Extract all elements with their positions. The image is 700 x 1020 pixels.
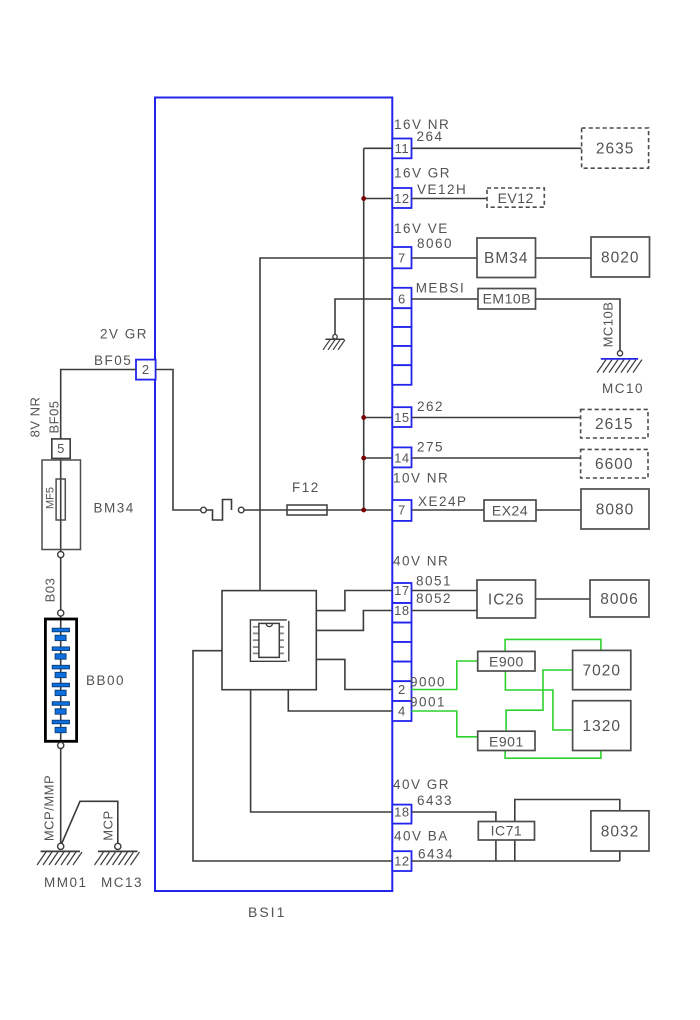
svg-text:262: 262 [417, 399, 444, 414]
svg-text:IC71: IC71 [491, 823, 523, 839]
component BM34 (right) [477, 238, 536, 278]
svg-text:40V BA: 40V BA [394, 829, 449, 844]
svg-text:8020: 8020 [601, 250, 639, 267]
svg-text:5: 5 [57, 441, 65, 456]
component 1320 [573, 701, 631, 751]
connector pin 12 [392, 188, 411, 208]
empty connector cell [392, 365, 411, 385]
ground MC10 hatch [597, 360, 642, 373]
svg-text:40V GR: 40V GR [393, 777, 450, 792]
svg-text:14: 14 [394, 451, 409, 466]
wire pin12 6434 to chip left [193, 651, 392, 861]
wire chip bottom to pin4 [288, 690, 392, 711]
component EV12 (dashed) [487, 188, 544, 207]
svg-text:8006: 8006 [600, 591, 638, 608]
svg-text:6434: 6434 [418, 847, 454, 862]
connector pin 18 (6433) [392, 805, 411, 824]
empty connector cell [392, 327, 411, 346]
wire pin7 to BM34 [412, 257, 478, 259]
battery BB00 plates [52, 628, 69, 733]
wire pin17 to IC26 [412, 590, 478, 592]
switch contact circle left [201, 507, 207, 513]
svg-text:2: 2 [398, 682, 406, 697]
svg-text:B03: B03 [43, 578, 58, 603]
internal ground circle [333, 335, 337, 339]
fuse BM34 element [56, 479, 65, 520]
wire IC71 to 8032 top loop [515, 800, 620, 862]
wire pin15 internal [364, 417, 393, 419]
svg-text:EV12: EV12 [498, 190, 534, 206]
svg-text:12: 12 [394, 854, 409, 869]
wire IC26 to 8006 [536, 598, 591, 600]
BSI1 control unit outline [155, 98, 392, 892]
svg-text:2: 2 [142, 362, 150, 377]
svg-text:7: 7 [398, 251, 406, 266]
svg-text:BM34: BM34 [484, 250, 529, 267]
wire pin18 6433 through IC71 [412, 812, 496, 861]
component IC71 [478, 822, 534, 841]
connector pin 18 (8052) [392, 603, 411, 623]
wire MCP/MMP [60, 749, 62, 844]
IC pin ticks left [253, 627, 259, 654]
connection circle below battery [58, 742, 64, 748]
connector pin 14 [392, 447, 411, 467]
wire pin6 through EM10B to MC10 [412, 299, 621, 351]
IC symbol bracket left [250, 620, 286, 661]
wire pin6 internal to ground [335, 299, 392, 334]
green wire E900 bottom to 1320 left [505, 671, 572, 730]
component E901 [478, 731, 535, 750]
svg-text:MM01: MM01 [44, 875, 88, 890]
internal ground hatch [323, 340, 345, 350]
empty connector cell [392, 662, 411, 682]
svg-text:8V NR: 8V NR [28, 397, 43, 438]
svg-text:EM10B: EM10B [483, 291, 531, 307]
pin 5 box [52, 439, 70, 459]
wire pin12 internal [364, 198, 393, 200]
svg-text:E901: E901 [489, 733, 524, 749]
svg-text:1320: 1320 [582, 718, 620, 735]
battery BB00 case [45, 619, 76, 741]
svg-text:7020: 7020 [582, 663, 620, 680]
svg-text:XE24P: XE24P [418, 494, 468, 509]
svg-text:6: 6 [398, 292, 406, 307]
green wire pin4 to E901 [412, 711, 478, 737]
connector pin 2 (9000) [392, 681, 411, 701]
ground MC13 hatch [95, 852, 140, 865]
wire pin11 internal to junction column [364, 147, 393, 149]
wire pin15 to 2615 [412, 417, 581, 419]
svg-text:264: 264 [417, 129, 444, 144]
svg-text:9001: 9001 [410, 695, 446, 710]
svg-text:EX24: EX24 [492, 503, 528, 519]
wire BM34 to 8020 [536, 257, 592, 259]
connector pin 2 BF05 (left edge) [136, 360, 156, 380]
component EM10B [478, 289, 536, 310]
wire pin7 through EX24 to 8080 [412, 509, 582, 511]
connector pin 11 [392, 139, 411, 159]
svg-text:MC13: MC13 [101, 875, 143, 890]
component EX24 [484, 500, 536, 521]
wire pin7 16V VE internal to chip top [260, 258, 392, 591]
svg-text:4: 4 [398, 704, 406, 719]
component 8020 [591, 237, 650, 277]
connector pin 4 (9001) [392, 701, 411, 721]
ground MC13 circle [115, 843, 121, 849]
wire pin12 to EV12 [412, 198, 488, 200]
component 8032 [591, 811, 649, 851]
wire B03 [60, 558, 62, 610]
wire pin14 internal [364, 457, 393, 459]
svg-text:6433: 6433 [417, 793, 453, 808]
wire into battery [60, 616, 62, 742]
svg-text:BF05: BF05 [47, 400, 62, 433]
connection circle above battery [58, 610, 64, 616]
wire pin2 BF05 to pin5 [61, 370, 136, 439]
junction dot pin7 10V [361, 508, 366, 513]
connector pin 12 (6434) [392, 851, 411, 871]
empty connector cell [392, 642, 411, 662]
svg-text:MC10: MC10 [602, 381, 644, 396]
ground MC10 circle [617, 351, 622, 356]
wire chip to pin17 [316, 591, 392, 611]
svg-text:MEBSI: MEBSI [416, 281, 466, 296]
svg-text:MC10B: MC10B [601, 302, 616, 348]
wire junction column vertical [363, 148, 365, 510]
internal ground bar [325, 338, 344, 340]
empty connector cell [392, 346, 411, 365]
svg-text:2635: 2635 [596, 141, 634, 158]
component 8080 [581, 489, 649, 529]
svg-text:2615: 2615 [595, 416, 633, 433]
junction dot pin14 [361, 456, 366, 461]
svg-text:8080: 8080 [596, 502, 634, 519]
svg-text:9000: 9000 [410, 675, 446, 690]
fuse BM34 outer box [42, 460, 81, 550]
ground MC10 bar (blue) [601, 358, 638, 360]
svg-text:BF05: BF05 [94, 353, 132, 368]
component E900 [478, 651, 535, 671]
green wire E901 bottom to 1320 bottom [505, 751, 601, 759]
junction dot pin15 [361, 415, 366, 420]
svg-text:12: 12 [394, 191, 409, 206]
IC notch [266, 623, 272, 626]
empty connector cell [392, 308, 411, 327]
wire chip bottom to pin18 6433 [251, 690, 393, 812]
green wire 7020 left to E901 top [506, 670, 572, 731]
connection circle below BM34 [58, 552, 64, 558]
svg-text:E900: E900 [489, 654, 524, 670]
switch contact circle right [238, 507, 244, 513]
svg-text:40V NR: 40V NR [393, 554, 449, 569]
wire pin14 to 6600 [412, 457, 581, 459]
wire BF05 pin2 to switch [156, 370, 201, 511]
ground MM01 hatch [37, 852, 82, 865]
IC symbol bracket right [288, 621, 290, 662]
svg-text:16V VE: 16V VE [394, 221, 449, 236]
wire 8032 bottom stub [619, 851, 621, 861]
component 2635 (dashed) [582, 128, 649, 168]
svg-text:BB00: BB00 [86, 673, 125, 688]
IC pin ticks right [279, 627, 284, 654]
green wire pin2 to E900 [412, 661, 478, 690]
svg-text:2V GR: 2V GR [100, 327, 148, 342]
component 7020 [573, 650, 631, 689]
svg-text:275: 275 [417, 440, 444, 455]
green wire E900 top to 7020 top [505, 639, 601, 651]
svg-text:17: 17 [394, 583, 409, 598]
switch blade [206, 500, 231, 521]
svg-text:16V GR: 16V GR [394, 166, 451, 181]
connector pin 15 [392, 407, 411, 427]
svg-text:MCP/MMP: MCP/MMP [42, 775, 57, 841]
svg-text:8060: 8060 [417, 236, 453, 251]
ground MC13 bar [98, 850, 138, 852]
svg-text:VE12H: VE12H [417, 182, 467, 197]
IC body [259, 623, 279, 657]
svg-text:8052: 8052 [416, 591, 452, 606]
junction dot pin12 [361, 196, 366, 201]
connector pin 7 (16V VE) [392, 247, 411, 268]
empty connector cell [392, 623, 411, 642]
svg-text:10V NR: 10V NR [393, 471, 449, 486]
ground MM01 circle [58, 843, 64, 849]
component 8006 [590, 580, 649, 617]
wire switch to F12 to pin7 [244, 509, 392, 511]
wire pin18 to IC26 [412, 610, 478, 612]
ground MM01 bar [41, 850, 80, 852]
wire pin12 6434 to 8032 loop [412, 860, 620, 862]
connector pin 17 [392, 583, 411, 603]
svg-text:MCP: MCP [101, 810, 116, 840]
svg-text:15: 15 [394, 410, 409, 425]
wire chip to pin18 [316, 611, 392, 631]
chip module box [222, 591, 316, 690]
svg-text:IC26: IC26 [488, 592, 525, 609]
component 6600 (dashed) [581, 449, 648, 478]
svg-text:18: 18 [394, 805, 409, 820]
component IC26 [477, 580, 536, 618]
wire through fuse BM34 [60, 458, 62, 551]
svg-text:MF5: MF5 [45, 487, 57, 509]
wire branch to MC13 [62, 801, 118, 844]
svg-text:7: 7 [398, 503, 406, 518]
svg-text:11: 11 [395, 141, 410, 156]
connector pin 6 [392, 288, 411, 308]
svg-text:8051: 8051 [416, 574, 452, 589]
component 2615 (dashed) [581, 409, 648, 438]
svg-text:BM34: BM34 [94, 501, 135, 516]
svg-text:6600: 6600 [595, 456, 633, 473]
svg-text:BSI1: BSI1 [248, 904, 286, 920]
svg-text:F12: F12 [292, 480, 320, 495]
wire pin11 to 2635 [412, 147, 582, 149]
svg-text:18: 18 [394, 603, 409, 618]
fuse F12 body [287, 505, 327, 515]
wire chip to pin2 [316, 659, 392, 689]
svg-text:8032: 8032 [601, 823, 639, 840]
connector pin 7 (10V NR) [392, 500, 411, 521]
